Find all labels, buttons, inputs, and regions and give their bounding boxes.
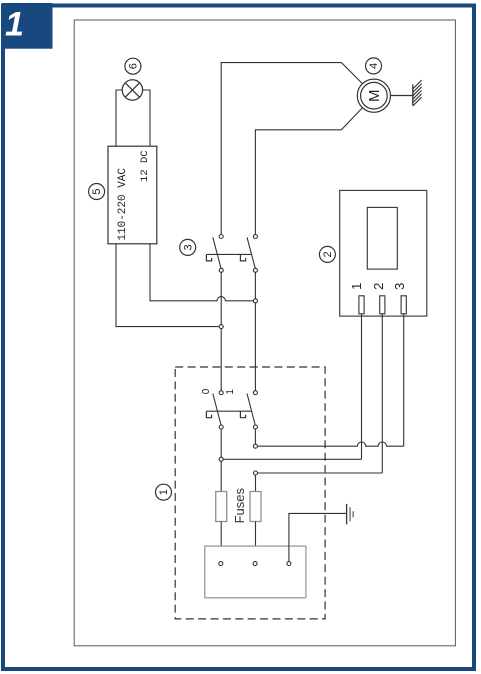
wire supply right output to node B (hops over pole A wire) [150, 244, 253, 301]
switch S3 pole B contact [247, 235, 257, 273]
svg-text:1: 1 [158, 489, 170, 495]
node E junction (fuse F2 wire to pin 2) [254, 471, 258, 475]
wire motor to chassis [391, 95, 413, 97]
main switch S1 pole A contact [213, 391, 223, 429]
wire S1 pole A to fuse F1 [220, 429, 222, 491]
node C junction (pole B to pin 3) [253, 444, 257, 448]
wire node C to pin 3 (hops over risers 1,2) [258, 442, 404, 446]
callout 1 (assembly) [156, 484, 172, 500]
main switch S1 cam hook B [240, 411, 245, 418]
svg-text:5: 5 [91, 188, 103, 194]
motor M4 [357, 79, 390, 112]
svg-text:1: 1 [225, 389, 236, 395]
earth ground [347, 504, 354, 524]
wire pole A S3 to S1 [220, 273, 222, 391]
node B junction on pole B wire [253, 299, 257, 303]
terminal block pin 3 [287, 562, 291, 566]
wire switch S3 pole A top to motor [221, 63, 362, 235]
svg-text:2: 2 [371, 283, 386, 290]
svg-text:3: 3 [392, 283, 407, 290]
svg-text:3: 3 [182, 244, 194, 250]
svg-text:12 DC: 12 DC [139, 150, 151, 182]
terminal block pin 2 [253, 562, 257, 566]
chassis ground (hatched) [413, 80, 422, 106]
svg-text:Fuses: Fuses [232, 488, 247, 524]
svg-text:M: M [366, 89, 383, 102]
callout 6 (lamp) [125, 58, 141, 74]
wire S1 pole B to node C [254, 429, 256, 444]
wire pole B S3 to S1 [254, 273, 256, 391]
wire fuse F2 to terminal block [255, 522, 257, 562]
fuse F2 [250, 492, 261, 522]
switch S3 cam hook A [206, 254, 211, 261]
callout 4 (motor) [366, 58, 382, 74]
wire node E to pin 2 riser [258, 472, 383, 474]
wire node E to fuse F2 [255, 475, 257, 491]
wire pin 2 riser [381, 314, 383, 473]
wire pin 3 riser [403, 314, 405, 446]
wire node D to pin 1 riser [223, 458, 361, 460]
dashed enclosure (assembly 1) [175, 367, 325, 619]
controller U2 [340, 190, 427, 316]
wire lamp right lead [143, 90, 150, 146]
wire lamp left lead [116, 90, 122, 146]
fuse F1 [216, 492, 227, 522]
switch S3 cam hook B [240, 254, 245, 261]
svg-text:4: 4 [368, 63, 380, 69]
wire switch S3 pole B top to motor [255, 108, 362, 234]
wire supply left output to node A [116, 244, 219, 327]
svg-text:0: 0 [201, 388, 212, 394]
switch S3 pole A contact [213, 235, 223, 273]
terminal pin 3 [401, 296, 406, 314]
main switch S1 cam hook A [206, 411, 211, 418]
svg-text:6: 6 [127, 63, 139, 69]
callout 5 (power supply) [89, 184, 105, 200]
terminal pin 2 [380, 296, 385, 314]
main switch S1 pole B contact [247, 391, 257, 429]
lamp L6 (indicator light) [122, 80, 142, 100]
wire fuse F1 to terminal block [220, 522, 222, 562]
main switch S1 actuator link [206, 410, 251, 412]
node D junction (fuse F1 wire to pin 1) [219, 457, 223, 461]
svg-text:2: 2 [322, 251, 334, 257]
node A junction on pole A wire [219, 325, 223, 329]
power supply U5 110-220 VAC / 12 DC [108, 146, 157, 244]
callout 3 (switch) [180, 239, 196, 255]
callout 2 (controller) [319, 246, 335, 262]
terminal block pin 1 [219, 562, 223, 566]
svg-text:1: 1 [349, 283, 364, 290]
svg-text:110-220 VAC: 110-220 VAC [117, 168, 129, 241]
terminal pin 1 [359, 296, 364, 314]
terminal block TB1 [205, 546, 306, 598]
svg-text:1: 1 [5, 6, 24, 44]
wire terminal 3 to earth ground [289, 513, 346, 561]
switch S3 actuator link [206, 253, 251, 255]
wire pin 1 riser [361, 314, 363, 460]
